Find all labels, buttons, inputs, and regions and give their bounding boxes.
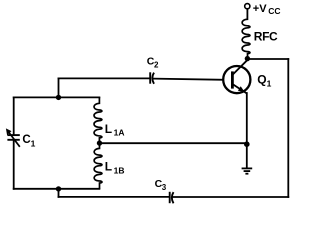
wire Vcc terminal to RFC xyxy=(246,9,248,19)
capacitor C1 variable xyxy=(6,128,20,146)
wire tank left edge upper xyxy=(13,97,15,134)
svg-text:+V: +V xyxy=(253,3,267,15)
svg-text:L: L xyxy=(105,122,112,136)
svg-text:L: L xyxy=(105,160,112,174)
svg-text:Q: Q xyxy=(257,73,266,87)
label L1A xyxy=(105,122,125,138)
capacitor C2 xyxy=(150,72,154,84)
svg-text:1A: 1A xyxy=(114,128,125,138)
wire bottom drop from tank junction xyxy=(58,189,60,197)
node tank top junction xyxy=(56,95,61,100)
label C1 xyxy=(22,134,35,149)
inductor L1B xyxy=(94,143,102,189)
wire tank top edge xyxy=(14,96,100,98)
label +Vcc xyxy=(253,3,281,16)
wire tank left edge lower xyxy=(13,140,15,189)
inductor RFC xyxy=(242,19,250,58)
svg-text:1: 1 xyxy=(267,78,272,88)
node emitter junction xyxy=(244,141,250,147)
wire tank bottom edge xyxy=(14,188,100,190)
node tank tap junction xyxy=(97,140,102,145)
wire bottom horizontal left of C3 xyxy=(59,196,170,198)
wire ground stem xyxy=(246,144,248,167)
wire top horizontal C2 to Q1 base xyxy=(154,79,232,80)
label C2 xyxy=(147,55,159,69)
transistor Q1 xyxy=(223,60,250,93)
wire top horizontal left of C2 xyxy=(59,77,150,79)
wire collector node to right edge xyxy=(247,58,288,60)
ground xyxy=(242,168,253,173)
label L1B xyxy=(105,160,125,176)
node tank bottom junction xyxy=(56,186,61,191)
svg-text:1: 1 xyxy=(31,139,36,149)
wire emitter vertical xyxy=(246,93,248,144)
label C3 xyxy=(155,178,167,192)
svg-text:C: C xyxy=(22,134,30,146)
svg-text:3: 3 xyxy=(162,183,167,192)
svg-text:2: 2 xyxy=(154,60,159,69)
node collector junction xyxy=(245,56,250,61)
svg-text:1B: 1B xyxy=(114,165,125,175)
capacitor C3 xyxy=(170,192,174,204)
Vcc terminal circle xyxy=(245,4,250,9)
wire tap to emitter junction xyxy=(100,142,247,144)
inductor L1A xyxy=(94,97,102,143)
svg-text:CC: CC xyxy=(268,6,280,16)
label Q1 xyxy=(257,73,271,89)
wire bottom horizontal right of C3 xyxy=(173,196,288,198)
svg-text:RFC: RFC xyxy=(254,30,278,44)
wire right edge vertical xyxy=(287,59,289,197)
wire vertical from top wire down to tank top xyxy=(58,78,60,97)
